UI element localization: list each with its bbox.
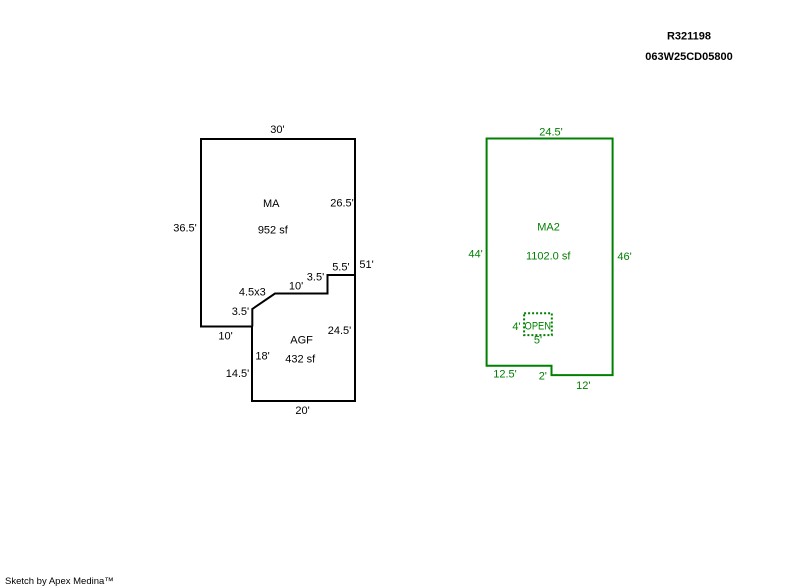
svg-text:24.5': 24.5' [328, 325, 352, 337]
svg-text:OPEN: OPEN [525, 321, 552, 333]
MA/AGF divider line [252, 275, 355, 327]
svg-text:3.5': 3.5' [232, 306, 249, 318]
svg-text:10': 10' [218, 331, 232, 343]
svg-text:AGF: AGF [290, 335, 313, 347]
svg-text:1102.0 sf: 1102.0 sf [526, 251, 571, 263]
svg-text:4.5x3: 4.5x3 [239, 287, 266, 299]
svg-text:18': 18' [255, 351, 269, 363]
svg-text:Sketch by Apex Medina™: Sketch by Apex Medina™ [5, 576, 114, 587]
svg-text:36.5': 36.5' [173, 223, 197, 235]
svg-text:952 sf: 952 sf [258, 225, 289, 237]
svg-text:14.5': 14.5' [226, 368, 250, 380]
svg-text:MA: MA [263, 198, 280, 210]
svg-text:46': 46' [617, 251, 631, 263]
svg-text:10': 10' [289, 281, 303, 293]
svg-text:063W25CD05800: 063W25CD05800 [645, 51, 732, 63]
svg-text:44': 44' [468, 249, 482, 261]
svg-text:4': 4' [512, 321, 520, 333]
svg-text:5': 5' [534, 335, 542, 347]
svg-text:24.5': 24.5' [539, 127, 563, 139]
svg-text:R321198: R321198 [667, 31, 711, 43]
svg-text:5.5': 5.5' [332, 261, 349, 273]
svg-text:2': 2' [539, 371, 547, 383]
svg-text:12': 12' [576, 380, 590, 392]
svg-text:432 sf: 432 sf [285, 354, 316, 366]
svg-text:51': 51' [359, 259, 373, 271]
building MA2 outline (green) [487, 139, 613, 376]
OPEN dashed rectangle [524, 313, 552, 335]
svg-text:26.5': 26.5' [330, 197, 354, 209]
svg-text:20': 20' [295, 405, 309, 417]
building MA outline [201, 139, 355, 401]
svg-text:3.5': 3.5' [307, 272, 324, 284]
svg-text:MA2: MA2 [537, 221, 560, 233]
svg-text:12.5': 12.5' [493, 369, 517, 381]
svg-text:30': 30' [270, 124, 284, 136]
